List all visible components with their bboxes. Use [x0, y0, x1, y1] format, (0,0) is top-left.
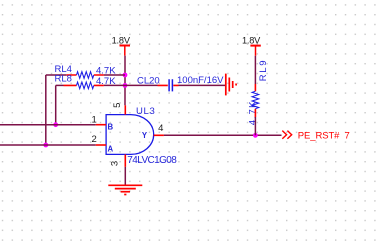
wire junction to CL20 — [125, 84, 158, 86]
svg-text:5: 5 — [112, 103, 123, 108]
svg-text:B: B — [108, 123, 114, 132]
svg-text:RL9: RL9 — [258, 59, 269, 82]
svg-text:A: A — [108, 144, 114, 153]
wire RL8 down to upper input net — [55, 85, 57, 124]
pin 1 stub — [96, 124, 106, 126]
node junction upper input — [53, 122, 58, 127]
wire lower input net — [0, 144, 96, 146]
svg-text:1: 1 — [92, 115, 97, 126]
svg-text:74LVC1G08: 74LVC1G08 — [127, 155, 177, 166]
svg-text:2: 2 — [92, 134, 97, 145]
wire RL4 right lead to rail — [104, 74, 125, 76]
svg-text:7: 7 — [345, 131, 350, 142]
pin 3 stub — [124, 154, 126, 167]
node junction rail/RL8 — [123, 83, 128, 88]
ground (sideways, right of CL20) — [226, 74, 236, 96]
svg-text:Y: Y — [142, 131, 148, 140]
svg-text:4: 4 — [158, 123, 163, 134]
wire CL20 to ground — [179, 84, 226, 86]
node junction rail/RL4 — [123, 73, 128, 78]
svg-text:100nF/16V: 100nF/16V — [177, 75, 224, 86]
AND gate UL3 (74LVC1G08) — [106, 106, 177, 166]
wire: 1.8V rail down to gate pin 5 — [124, 56, 126, 106]
svg-text:1.8V: 1.8V — [242, 35, 261, 45]
svg-text:1.8V: 1.8V — [112, 35, 131, 45]
capacitor CL20 — [137, 75, 224, 91]
svg-text:3: 3 — [110, 161, 121, 166]
wire RL4 left lead — [46, 74, 67, 76]
wire pin 3 to ground — [124, 167, 126, 185]
resistor RL8 — [55, 73, 117, 88]
node junction output/RL9 — [253, 133, 258, 138]
pin 5 stub — [124, 105, 126, 114]
off-page connector PE_RST# — [282, 131, 349, 142]
wire output net Y — [164, 134, 282, 136]
wire upper input net — [0, 124, 96, 126]
svg-text:UL3: UL3 — [136, 106, 156, 117]
pin 2 stub — [96, 144, 106, 146]
resistor RL4 — [55, 64, 117, 78]
power symbol 1.8V (right) — [242, 35, 261, 55]
svg-text:RL8: RL8 — [55, 73, 72, 84]
wire RL8 left lead — [56, 84, 64, 86]
wire 1.8V to RL9 — [254, 56, 256, 84]
pin 4 stub — [154, 134, 164, 136]
wire RL4 down to lower input net — [45, 75, 47, 145]
node junction lower input — [43, 143, 48, 148]
power symbol 1.8V (left) — [112, 35, 131, 55]
resistor RL9 — [248, 59, 269, 126]
wire RL9 to output net — [254, 117, 256, 135]
wire RL8 right lead to rail — [104, 84, 125, 86]
svg-text:PE_RST#: PE_RST# — [298, 131, 340, 142]
ground (below gate) — [108, 185, 142, 194]
